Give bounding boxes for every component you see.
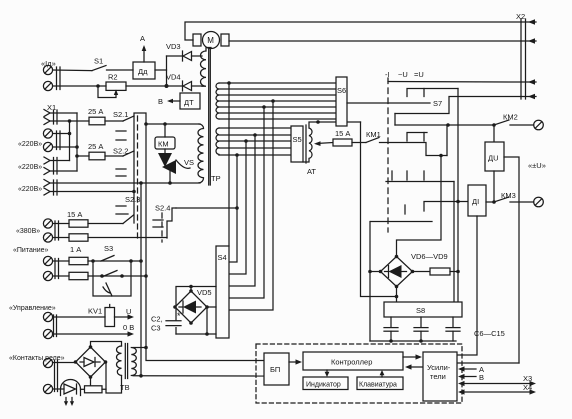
fuse 380V no2 bbox=[53, 234, 88, 241]
wire X3 bbox=[458, 374, 536, 386]
switch S4 drop6 bbox=[230, 101, 274, 310]
wire DU to amplifier column bbox=[504, 157, 519, 363]
switch S4 drop3 bbox=[230, 141, 247, 274]
transformer TP core bbox=[209, 48, 211, 185]
wire vertical x361 bbox=[361, 122, 399, 298]
svg-text:БП: БП bbox=[270, 365, 280, 374]
switch S2.3 bbox=[116, 195, 140, 224]
svg-text:КМ: КМ bbox=[158, 140, 169, 149]
wire vertical x458 bbox=[456, 89, 460, 303]
svg-text:Клавиатура: Клавиатура bbox=[359, 382, 397, 389]
transformer TP secondary winding upper bbox=[216, 83, 219, 119]
current sensor Dd bbox=[133, 62, 155, 79]
contactor KM bbox=[155, 124, 175, 149]
wire 220V-1b row bbox=[53, 145, 79, 149]
svg-text:0 В: 0 В bbox=[123, 323, 134, 332]
node R2 wiper junction bbox=[96, 84, 100, 88]
wire DU line into amplifier bbox=[458, 362, 519, 364]
wire mains vertical x141 bbox=[139, 183, 143, 378]
cable tick Pitanie bbox=[55, 259, 59, 279]
switch S5 bbox=[291, 126, 303, 162]
svg-text:VD3: VD3 bbox=[166, 42, 181, 51]
controller box bbox=[303, 352, 403, 370]
terminal KM3 out bbox=[534, 197, 544, 207]
autotransformer AT winding bbox=[303, 122, 318, 176]
pin 220V-2b bbox=[44, 168, 50, 175]
latch loop S3 bbox=[93, 261, 131, 296]
wire mains vertical x146 bbox=[144, 124, 264, 361]
svg-text:S2.4: S2.4 bbox=[155, 204, 170, 213]
arrow controller to amplifier bbox=[403, 354, 422, 359]
wire 220V-3b row to S2 bus bbox=[50, 190, 136, 194]
wire bus y221 bbox=[371, 221, 432, 223]
wire X1-1 row bbox=[50, 112, 77, 114]
label 380V bbox=[16, 228, 40, 235]
wire motor right to X2 line2 bbox=[229, 40, 521, 42]
switch S2.2 bbox=[113, 147, 134, 177]
rectifier VD5 loop bottom bbox=[176, 332, 216, 336]
fuse 25A no1 bbox=[88, 107, 123, 125]
svg-text:В: В bbox=[158, 97, 163, 106]
transformer TP secondary winding lower bbox=[216, 128, 219, 155]
arrow BP to controller bbox=[289, 359, 302, 364]
fuse 25A no2 bbox=[88, 142, 123, 160]
wire 380V row1 to S2.3 bbox=[88, 223, 123, 225]
label TP bbox=[211, 174, 221, 183]
wire S1 to Dd bbox=[107, 69, 134, 71]
svg-text:«±U»: «±U» bbox=[528, 161, 546, 170]
wire Id bottom to R2 bbox=[53, 85, 106, 87]
contact KM2 bbox=[494, 113, 534, 126]
terminal Pitanie-a bbox=[43, 256, 52, 265]
wire X4 bbox=[458, 383, 536, 395]
wire VD5 right to S4 bbox=[207, 307, 216, 334]
cable tick Id pair bbox=[57, 67, 61, 90]
node fuse1 junction bbox=[68, 119, 72, 123]
contact ticks y205 bbox=[404, 205, 406, 214]
label 220V no2 bbox=[18, 164, 42, 171]
labels -I ~U =U bbox=[385, 70, 424, 79]
switch S6 bbox=[336, 77, 347, 126]
connector X1 label bbox=[47, 103, 56, 112]
wire tap row9 bbox=[219, 133, 291, 137]
cable tick Rele bbox=[55, 360, 58, 392]
terminal Upr-a bbox=[43, 312, 52, 321]
svg-text:ДI: ДI bbox=[472, 197, 479, 206]
amplifier box bbox=[423, 352, 457, 401]
dashed controller box bbox=[256, 344, 462, 403]
wire KM1 to maze bbox=[380, 143, 448, 156]
indicator box bbox=[303, 377, 348, 390]
terminal Rele-a bbox=[43, 358, 52, 367]
svg-text:С6—С15: С6—С15 bbox=[474, 329, 505, 338]
bridge VD5 bbox=[173, 288, 211, 325]
bridge relay rectifier bbox=[74, 345, 108, 379]
cable tick 380V bbox=[55, 221, 59, 240]
svg-text:Дд: Дд bbox=[138, 67, 148, 76]
contact KM1 bbox=[366, 130, 381, 143]
pin 220V-3a bbox=[44, 180, 57, 196]
wire bus y201 bbox=[424, 202, 468, 212]
capacitor bank stub2 bbox=[414, 317, 428, 343]
pin X2-1 bbox=[521, 19, 536, 25]
contact KM3 bbox=[494, 191, 534, 202]
thyristor VS bbox=[158, 149, 194, 185]
wire TV primary bottom to BP bbox=[133, 375, 264, 377]
svg-text:«380В»: «380В» bbox=[16, 228, 40, 235]
wire bus y181 bbox=[386, 181, 454, 183]
wire bridge bottom to S8 bbox=[396, 287, 398, 303]
arrow controller to indicator bbox=[325, 370, 330, 377]
voltage sensor DU bbox=[485, 125, 504, 171]
wire vertical x370 bbox=[368, 222, 372, 342]
svg-text:25 А: 25 А bbox=[88, 142, 103, 151]
label C6-C15 bbox=[474, 329, 505, 338]
svg-text:15 А: 15 А bbox=[335, 129, 350, 138]
wire resistor up to bridge right bbox=[102, 362, 106, 389]
contact bar y88 bbox=[407, 89, 458, 97]
svg-text:ДТ: ДТ bbox=[184, 98, 194, 107]
terminal 380V-b bbox=[43, 233, 52, 242]
terminal Id-1 bbox=[43, 65, 52, 74]
wire bracket to bridge feeder bbox=[397, 154, 443, 257]
transformer TP primary winding upper bbox=[201, 48, 211, 87]
svg-text:«Управление»: «Управление» bbox=[9, 305, 56, 312]
svg-text:*: * bbox=[177, 311, 181, 321]
svg-text:Х3: Х3 bbox=[523, 374, 532, 383]
svg-text:VS: VS bbox=[184, 158, 194, 167]
wire DI bottom to amplifier bbox=[458, 216, 477, 355]
wire tap row10 bbox=[219, 139, 291, 143]
wire Id top to S1 bbox=[53, 69, 92, 72]
wire motor left to X2 line1 bbox=[185, 22, 521, 40]
fuse 1A no1 bbox=[53, 257, 88, 264]
wire Rele-b row bbox=[53, 388, 64, 390]
wire Rele-a to bridge bbox=[53, 362, 76, 364]
arrow amplifier to controller bbox=[405, 364, 423, 369]
wire 220V-2b row bbox=[50, 170, 77, 172]
svg-text:М: М bbox=[207, 36, 214, 45]
label Pitanie bbox=[13, 245, 81, 254]
svg-text:U: U bbox=[126, 307, 131, 316]
wire Dd to diode node bbox=[155, 69, 167, 71]
pin 220V-2a bbox=[44, 157, 57, 174]
svg-text:S4: S4 bbox=[218, 253, 227, 262]
fuse 15A 380V no1 bbox=[53, 210, 88, 227]
transformer TV right winding bbox=[131, 348, 136, 376]
node VD4 junction bbox=[165, 84, 169, 88]
svg-text:~U: ~U bbox=[398, 70, 408, 79]
wire X1-2 row to fuse bbox=[50, 120, 89, 122]
relay KV1 bbox=[53, 305, 115, 327]
contact S3 pole2 bbox=[104, 271, 117, 277]
mechanical link S2 dashed bbox=[137, 116, 139, 242]
cable tick Upr bbox=[54, 315, 57, 337]
wire 380V row2 to S2.4 bbox=[88, 237, 167, 239]
wire bus x69 bbox=[69, 121, 71, 161]
svg-text:S7: S7 bbox=[433, 99, 442, 108]
current probe DT bbox=[180, 93, 200, 109]
current sensor DI bbox=[468, 185, 486, 216]
wire bridge bottom stub bbox=[90, 377, 92, 386]
arrow output A from Dd bbox=[140, 34, 146, 62]
svg-text:-I: -I bbox=[385, 70, 390, 79]
svg-text:тели: тели bbox=[430, 372, 446, 381]
svg-text:ТВ: ТВ bbox=[120, 383, 130, 392]
svg-text:АТ: АТ bbox=[307, 167, 316, 176]
svg-text:S8: S8 bbox=[416, 306, 425, 315]
wire bridge top to TV bbox=[91, 342, 122, 348]
wire Pitanie row2 bbox=[88, 274, 146, 278]
capacitor bank stub1 bbox=[384, 317, 398, 343]
wire DU bottom bbox=[492, 171, 496, 204]
wire tap row11 bbox=[219, 147, 291, 149]
svg-text:КМ2: КМ2 bbox=[503, 113, 518, 122]
svg-text:«Контакты реле»: «Контакты реле» bbox=[9, 355, 65, 362]
resistor relay circuit bbox=[85, 386, 103, 393]
terminal Pitanie-b bbox=[43, 271, 52, 280]
wire tap row4 bbox=[219, 99, 336, 103]
wire tap row12 bbox=[219, 153, 291, 157]
svg-text:VD5: VD5 bbox=[197, 288, 212, 297]
wire bus y81 to X2-3 bbox=[388, 81, 521, 84]
resistor R2 bbox=[106, 73, 126, 91]
arrow output B from DT bbox=[158, 97, 180, 106]
svg-text:Контроллер: Контроллер bbox=[331, 358, 372, 367]
wire tap row5 bbox=[219, 105, 336, 109]
motor M bbox=[193, 32, 229, 49]
svg-text:S5: S5 bbox=[293, 135, 302, 144]
contact bar y132 bbox=[407, 133, 427, 142]
wire S6 output to S7 bbox=[347, 99, 442, 108]
svg-text:ДU: ДU bbox=[488, 154, 499, 163]
svg-text:S3: S3 bbox=[104, 244, 113, 253]
svg-text:В: В bbox=[479, 373, 484, 382]
rectifier VD5 loop top bbox=[176, 287, 216, 335]
mechanical link S7 dashed bbox=[387, 78, 389, 232]
wire tap row2 bbox=[219, 88, 336, 90]
wire primary top row bbox=[144, 122, 200, 126]
svg-text:«220В»: «220В» bbox=[18, 141, 42, 148]
terminal Id input label bbox=[41, 59, 56, 68]
cable tick 220V-1 bbox=[57, 131, 61, 150]
switch S4 drop1 bbox=[228, 83, 230, 246]
wire tap row1 bbox=[219, 81, 336, 85]
wire LED to resistor bbox=[81, 388, 85, 390]
diode inside VD6-VD9 bbox=[385, 265, 407, 278]
label Upravlenie bbox=[9, 305, 56, 312]
svg-text:«220В»: «220В» bbox=[18, 164, 42, 171]
svg-text:=U: =U bbox=[414, 70, 424, 79]
pin X1-1 bbox=[44, 110, 57, 125]
wire vertical x454 bbox=[453, 182, 455, 303]
wire bridge left vertex bbox=[370, 271, 381, 273]
switch S2.4 bbox=[153, 204, 176, 239]
wire bus x77 bbox=[75, 113, 79, 171]
switch S4 bbox=[216, 246, 229, 338]
mechanical link S2.4 dashed bbox=[161, 213, 163, 242]
wire VD5 plus stub bbox=[189, 285, 193, 291]
svg-text:S2.1: S2.1 bbox=[113, 110, 128, 119]
autotransformer AT core bbox=[305, 125, 307, 163]
label 220V no3 bbox=[18, 186, 42, 193]
svg-text:R2: R2 bbox=[108, 73, 118, 82]
switch S4 drop5 bbox=[230, 107, 265, 298]
svg-text:А: А bbox=[140, 34, 145, 43]
wire tap row6 bbox=[219, 112, 336, 114]
bridge VD6-VD9 bbox=[379, 252, 448, 288]
connector X2 bbox=[516, 12, 526, 99]
svg-text:Усили-: Усили- bbox=[427, 363, 451, 372]
contact ticks y167 bbox=[392, 171, 424, 180]
label Kontakty rele bbox=[9, 355, 65, 362]
resistor ballast bbox=[413, 268, 459, 275]
wire DI out bbox=[486, 201, 494, 203]
label 220V no1 bbox=[18, 141, 42, 148]
pin X2-4 bbox=[521, 94, 536, 100]
svg-text:15 А: 15 А bbox=[67, 210, 82, 219]
switch S8 bbox=[384, 302, 462, 317]
svg-text:VD4: VD4 bbox=[166, 73, 181, 82]
pin 220V-3b bbox=[44, 188, 50, 195]
diode VD3 bbox=[166, 42, 202, 61]
svg-text:C3: C3 bbox=[151, 324, 161, 333]
svg-text:«Iд»: «Iд» bbox=[41, 59, 56, 68]
node AT top junction bbox=[316, 120, 320, 124]
wire TV primary top bbox=[133, 347, 146, 349]
pin X2-2 bbox=[521, 38, 536, 44]
wire 220V-1a row bbox=[53, 132, 72, 136]
wire AT top to vertical bbox=[318, 121, 361, 123]
svg-text:«Питание»: «Питание» bbox=[13, 247, 49, 254]
transformer TP primary winding lower bbox=[198, 124, 204, 183]
terminal Id-2 bbox=[43, 81, 52, 90]
switch S2.1 bbox=[113, 110, 134, 140]
svg-text:25 А: 25 А bbox=[88, 107, 103, 116]
switch S4 drop2 bbox=[230, 155, 238, 262]
svg-text:VD6—VD9: VD6—VD9 bbox=[411, 252, 448, 261]
terminal 220V-1b bbox=[43, 142, 52, 151]
wire tap row8 bbox=[219, 127, 291, 129]
keyboard box bbox=[357, 377, 403, 390]
terminal Upr-b bbox=[43, 329, 52, 338]
wire KM2 bus bbox=[395, 114, 496, 127]
svg-text:S1: S1 bbox=[94, 57, 103, 66]
arrow keyboard to controller bbox=[380, 370, 385, 377]
svg-text:Индикатор: Индикатор bbox=[306, 382, 341, 389]
capacitor bank stub3 bbox=[446, 317, 460, 341]
wire Pitanie row1 bbox=[88, 259, 141, 263]
label TV bbox=[120, 383, 130, 392]
diode VD4 bbox=[166, 73, 202, 92]
wire S2.4 output row bbox=[176, 206, 239, 210]
svg-text:C2,: C2, bbox=[151, 315, 163, 324]
wire x447 link bbox=[446, 125, 448, 156]
arrow 0V output bbox=[53, 323, 135, 337]
terminal Rele-b bbox=[43, 384, 52, 393]
capacitor C2 C3 bbox=[151, 311, 181, 333]
fuse 1A no2 bbox=[53, 272, 88, 279]
svg-text:S6: S6 bbox=[337, 86, 346, 95]
LED indicator bbox=[61, 380, 81, 407]
svg-text:1 А: 1 А bbox=[70, 245, 81, 254]
wire primary bottom row bbox=[141, 182, 200, 184]
svg-text:ТР: ТР bbox=[211, 174, 221, 183]
switch S3 bbox=[104, 244, 113, 253]
wire capacitor bottom bus bbox=[370, 340, 456, 342]
wire 220V-2a row bbox=[50, 160, 70, 162]
terminal 380V-a bbox=[43, 219, 52, 228]
diode inside VD5 bbox=[179, 301, 201, 314]
wire fuse2 row bbox=[77, 155, 89, 157]
wire tap row3 bbox=[219, 94, 336, 96]
transformer TV core bbox=[125, 344, 127, 379]
transformer TV left winding bbox=[116, 346, 121, 376]
switch S1 bbox=[92, 57, 106, 71]
wiper arrow AT bbox=[314, 141, 333, 146]
pin X2-3 bbox=[521, 79, 536, 85]
svg-text:«220В»: «220В» bbox=[18, 186, 42, 193]
arrow U output bbox=[115, 307, 135, 320]
latch contact S3 bbox=[103, 283, 112, 296]
svg-text:Х4: Х4 bbox=[523, 383, 532, 392]
contact S3 pole1 bbox=[101, 256, 114, 262]
wire 220V-3a row to primary bottom bbox=[50, 181, 143, 185]
fuse 15A bbox=[333, 129, 352, 146]
wire node vertical VD3-VD4 bbox=[166, 56, 168, 86]
power supply BP bbox=[264, 353, 289, 385]
svg-text:X1: X1 bbox=[47, 103, 56, 112]
arrow input B bbox=[458, 373, 484, 382]
switch S2 output bus bbox=[134, 113, 146, 223]
terminal KM2 out bbox=[534, 120, 544, 130]
wire R2 wiper loop bbox=[98, 86, 118, 98]
diode inside relay bridge bbox=[80, 358, 100, 367]
pin X1-2 bbox=[44, 118, 50, 125]
arrow input A bbox=[458, 365, 484, 374]
wire bus y96 to X2-4 bbox=[395, 97, 521, 114]
label plusminus U bbox=[528, 161, 546, 170]
wire fuse to KM1 bbox=[352, 142, 366, 144]
terminal 220V-1a bbox=[43, 129, 52, 138]
switch S4 drop4 bbox=[230, 135, 256, 286]
svg-text:KV1: KV1 bbox=[88, 307, 102, 316]
wire TV secondary bottom bbox=[106, 376, 122, 394]
wire R2 to VD4 node bbox=[126, 85, 167, 87]
wire tap row7 bbox=[219, 118, 336, 120]
